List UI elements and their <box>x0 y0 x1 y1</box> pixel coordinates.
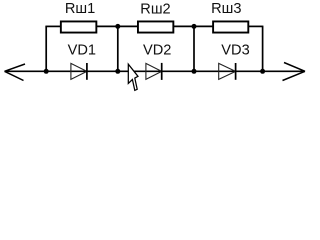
svg-text:Rш2: Rш2 <box>140 1 170 17</box>
svg-text:VD1: VD1 <box>68 43 96 59</box>
svg-text:VD3: VD3 <box>221 43 249 59</box>
svg-text:VD2: VD2 <box>143 43 171 59</box>
svg-text:Rш3: Rш3 <box>211 1 241 17</box>
svg-text:Rш1: Rш1 <box>65 1 95 17</box>
